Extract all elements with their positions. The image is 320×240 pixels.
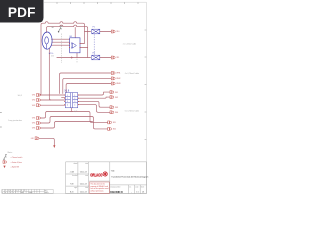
wire: motor V lead vertical to terminal L2 bbox=[49, 49, 51, 100]
svg-text:PDF: PDF bbox=[8, 5, 36, 20]
svg-text:B1: B1 bbox=[70, 36, 72, 38]
terminal P2b bbox=[110, 111, 114, 114]
svg-text:X1.8: X1.8 bbox=[64, 91, 69, 93]
svg-text:03-12-13: 03-12-13 bbox=[80, 171, 87, 173]
svg-text:1/1: 1/1 bbox=[142, 191, 144, 193]
terminal A1 bbox=[111, 72, 115, 75]
terminal L3 bbox=[37, 104, 41, 107]
terminal P2a bbox=[110, 106, 114, 109]
svg-text:M 3~: M 3~ bbox=[49, 53, 55, 55]
svg-text:D4B 8080 D: D4B 8080 D bbox=[110, 190, 123, 194]
wire: terminal L2 to block bbox=[40, 99, 65, 101]
property notice box bbox=[90, 182, 110, 193]
fuse F2 bbox=[92, 55, 100, 60]
svg-text:WH6: WH6 bbox=[32, 128, 35, 130]
terminal L4 bbox=[37, 117, 41, 120]
svg-text:descr.: descr. bbox=[45, 192, 49, 194]
svg-text:305: 305 bbox=[113, 122, 116, 124]
logo emblem bbox=[103, 172, 108, 177]
wire: motor to relay box upper bbox=[52, 38, 70, 40]
relay box K1 bbox=[70, 38, 80, 53]
relay box pins bbox=[69, 43, 80, 48]
svg-text:4: 4 bbox=[67, 105, 68, 107]
junction cross on feeder bbox=[71, 57, 73, 59]
wire: motor U lead up, over hops, down to fuse F1 input bbox=[40, 22, 91, 95]
terminal L5 bbox=[37, 122, 41, 125]
terminal A3 bbox=[111, 82, 115, 85]
svg-text:Title:: Title: bbox=[111, 169, 116, 172]
wire: terminal L6 joining bus bbox=[40, 122, 92, 129]
wire: block bottom stub bbox=[71, 108, 73, 112]
svg-text:WH1: WH1 bbox=[32, 95, 35, 97]
legend thermal switch symbol bbox=[3, 155, 7, 160]
svg-text:Transformer Frame 4x4 4m Elect: Transformer Frame 4x4 4m Electrical Diag… bbox=[111, 176, 148, 179]
wire: relay box bottom pin to feeder bbox=[76, 53, 78, 58]
wire: block row C up and right to terminal group A3 bbox=[66, 84, 111, 93]
svg-text:WH5: WH5 bbox=[32, 123, 35, 125]
svg-text:WH4: WH4 bbox=[32, 118, 35, 120]
svg-text:WH3: WH3 bbox=[116, 83, 120, 85]
drawing frame bbox=[2, 2, 147, 193]
PDF badge bbox=[0, 0, 44, 23]
terminal L2 bbox=[37, 99, 41, 102]
right terminal labels bbox=[113, 31, 121, 130]
terminal block pin numbers bbox=[67, 95, 75, 107]
wire: block row B up and right to terminal group A2 bbox=[63, 78, 112, 93]
wire: motor top stub to bus bbox=[47, 25, 88, 57]
svg-text:301: 301 bbox=[115, 92, 118, 94]
svg-text:F2: F2 bbox=[93, 53, 95, 55]
svg-text:1:1: 1:1 bbox=[136, 191, 138, 193]
svg-text:WH2: WH2 bbox=[32, 100, 35, 102]
schematic bbox=[39, 22, 111, 148]
terminal A2 bbox=[111, 77, 115, 80]
title block grid bbox=[66, 162, 147, 194]
svg-text:name: name bbox=[29, 192, 33, 194]
chassis arrow head bbox=[53, 145, 55, 148]
wire: terminal L1 to block bbox=[40, 94, 65, 96]
svg-text:303: 303 bbox=[115, 107, 118, 109]
terminal TF1 bbox=[111, 30, 115, 33]
svg-text:6 x 0,75mm2 cable: 6 x 0,75mm2 cable bbox=[125, 111, 139, 113]
wire: terminal L3 to block bbox=[40, 104, 65, 106]
wire: terminal L7 to chassis arrow bbox=[39, 138, 54, 145]
wire: block row A up and right to terminal group A1 bbox=[60, 73, 112, 94]
wire: relay box lower right pin stub bbox=[80, 47, 88, 49]
revision table bbox=[2, 189, 53, 193]
terminal L1 bbox=[37, 94, 41, 97]
property notice text bbox=[91, 183, 109, 193]
svg-text:drawn: drawn bbox=[74, 163, 78, 165]
svg-text:2: 2 bbox=[74, 98, 75, 100]
left terminal labels bbox=[31, 95, 36, 140]
wire: fuse F2 output to terminal bbox=[100, 57, 112, 59]
svg-text:WH1: WH1 bbox=[116, 73, 120, 75]
wire: relay box right pin stub bbox=[80, 32, 85, 44]
motor M1 bbox=[42, 32, 52, 49]
wire: fuse F1 output to terminal bbox=[100, 31, 112, 33]
wire: block out row2 to terminal P1b bbox=[78, 97, 110, 98]
cable annotations bbox=[8, 43, 139, 121]
svg-text:3: 3 bbox=[74, 101, 75, 103]
svg-text:3: 3 bbox=[67, 101, 68, 103]
svg-text:ORLACO: ORLACO bbox=[90, 172, 103, 177]
svg-text:1: 1 bbox=[74, 95, 75, 97]
svg-text:0,75: 0,75 bbox=[74, 111, 77, 113]
terminal L7 bbox=[35, 137, 39, 140]
legend faston symbol bbox=[3, 161, 7, 164]
small cell values bbox=[131, 191, 144, 193]
svg-text:0,75: 0,75 bbox=[51, 56, 54, 58]
wire: block out row1 to terminal P1a bbox=[78, 92, 110, 95]
svg-text:WH2: WH2 bbox=[116, 78, 120, 80]
thermal switch t bbox=[58, 26, 63, 32]
frame zone ticks bbox=[0, 2, 146, 139]
wire: terminal L4 to terminal P3a bbox=[40, 112, 107, 123]
svg-text:F1: F1 bbox=[93, 27, 95, 29]
title block left cells text bbox=[72, 162, 88, 189]
svg-text:3x1,5: 3x1,5 bbox=[18, 95, 22, 97]
svg-text:2 x 1,5mm2 cable: 2 x 1,5mm2 cable bbox=[123, 43, 136, 45]
svg-text:Note:: Note: bbox=[8, 151, 13, 154]
svg-text:310: 310 bbox=[116, 31, 119, 33]
left terminals group 1 bbox=[35, 94, 40, 140]
mechanical link F1-F2 bbox=[93, 34, 95, 54]
drawing number cell labels bbox=[110, 185, 144, 188]
svg-text:304: 304 bbox=[115, 112, 118, 114]
legend eyelet symbol bbox=[3, 166, 5, 169]
terminal P3b bbox=[108, 127, 112, 130]
svg-text:302: 302 bbox=[115, 97, 118, 99]
right terminals bbox=[108, 30, 115, 130]
wire: block out row3 to terminal P2a bbox=[78, 101, 110, 107]
wire: block out row4 to terminal P2b bbox=[78, 105, 110, 113]
svg-text:311: 311 bbox=[116, 57, 119, 59]
svg-text:scale: scale bbox=[135, 186, 138, 188]
svg-text:306: 306 bbox=[113, 129, 116, 131]
wire: motor to relay box lower bbox=[52, 44, 70, 46]
terminal P1a bbox=[110, 91, 114, 94]
svg-text:GN1: GN1 bbox=[31, 138, 34, 140]
fuse F1 bbox=[92, 29, 100, 34]
wire: feeder to fuse F2 bbox=[57, 57, 91, 59]
terminal P3a bbox=[108, 121, 112, 124]
svg-text:WH3: WH3 bbox=[32, 105, 35, 107]
wire: motor to relay box middle bbox=[52, 41, 70, 43]
svg-text:1: 1 bbox=[67, 95, 68, 97]
svg-text:04-12-13: 04-12-13 bbox=[80, 183, 87, 185]
svg-text:4 x 0,75mm2 cable: 4 x 0,75mm2 cable bbox=[125, 73, 139, 75]
terminal block X1 bbox=[65, 93, 77, 108]
link stub below box bbox=[76, 59, 78, 63]
thermal link line bbox=[60, 34, 62, 64]
svg-text:2: 2 bbox=[67, 98, 68, 100]
terminal P1b bbox=[110, 96, 114, 99]
wire: terminal L5 to terminal P3b bbox=[40, 117, 107, 129]
svg-text:checked: checked bbox=[72, 175, 77, 177]
revision table text bbox=[2, 190, 49, 194]
svg-text:1 way junction box: 1 way junction box bbox=[8, 119, 22, 122]
wire: block stub row bbox=[62, 97, 66, 99]
terminal block side pins bbox=[64, 95, 79, 106]
svg-text:M1: M1 bbox=[52, 27, 55, 29]
svg-text:drawing number: drawing number bbox=[110, 186, 121, 188]
svg-text:4: 4 bbox=[74, 105, 75, 107]
wire: relay box top pin up and over, down to fuse F2 input bbox=[74, 27, 76, 37]
terminal L6 bbox=[37, 127, 41, 130]
terminal TF2 bbox=[111, 56, 115, 59]
svg-text:04-12-13: 04-12-13 bbox=[80, 192, 87, 194]
